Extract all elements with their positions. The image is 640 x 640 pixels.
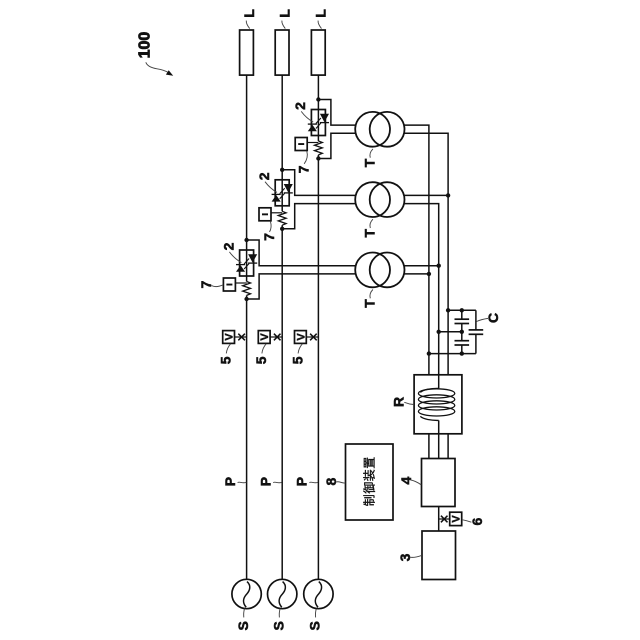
node: top junction (phase 2) [280, 168, 284, 172]
thyristor (up) of pair 2 (phase 1) [236, 265, 245, 272]
capacitor C1 [461, 310, 463, 319]
svg-text:V: V [259, 333, 271, 341]
wire: T1 secondary top lead to bus A [404, 125, 429, 375]
leader for 2 (phase 1) [229, 252, 241, 263]
svg-text:5: 5 [253, 356, 269, 364]
wire: bus A reactor to converter [428, 434, 430, 459]
svg-text:L: L [277, 9, 293, 18]
voltage sensor V box 5 (phase 2) [270, 336, 282, 338]
svg-text:P: P [294, 477, 310, 486]
svg-text:2: 2 [220, 242, 236, 250]
AC source S (phase 1) [232, 579, 261, 608]
gate of up thyristor (phase 3) [316, 118, 321, 124]
wire: coil feed top [438, 375, 440, 389]
leader for 5 (phase 2) [262, 344, 266, 354]
transformer T2 secondary winding circle [370, 182, 405, 217]
leader for 8 [336, 482, 345, 483]
thyristor (down) of pair 2 (phase 1) [248, 254, 257, 262]
node: bottom junction (phase 2) [280, 227, 284, 231]
node: bus A to cap rail [427, 351, 431, 355]
resistor (bypass damping) on line (phase 3) [315, 141, 323, 155]
leader for 7 (phase 1) [212, 285, 224, 287]
node: bottom junction (phase 1) [244, 297, 248, 301]
wire: load to top junction (phase 3) [317, 75, 319, 99]
svg-text:S: S [271, 621, 287, 630]
leader for R [404, 402, 414, 404]
leader for 2 (phase 3) [301, 111, 313, 122]
wire: T3 secondary bottom lead joins bus A [404, 273, 429, 275]
node: top junction (phase 3) [316, 97, 320, 101]
leader for L (phase 3) [318, 21, 321, 29]
capacitor C2 [461, 332, 463, 341]
wire: bypass bottom segment from transformer (phase 3) [318, 133, 355, 158]
svg-text:T: T [361, 158, 377, 167]
wire: sensor I stub to line (phase 1) [235, 282, 246, 284]
node: bus C to cap rail [437, 330, 441, 334]
node: bottom junction (phase 3) [316, 156, 320, 160]
gate of down thyristor (phase 3) [316, 123, 321, 129]
leader for 4 [410, 480, 421, 485]
svg-text:2: 2 [256, 172, 272, 180]
leader for 2 (phase 2) [265, 182, 277, 193]
leader for 7 (phase 2) [270, 221, 272, 232]
wire: line from bottom junction down to source (phase 3) [317, 159, 319, 580]
node: cap C2 bottom [460, 351, 464, 355]
voltage sensor V box 5 (phase 3) [306, 336, 318, 338]
thyristor (down) of pair 2 (phase 3) [320, 114, 329, 122]
svg-text:7: 7 [296, 165, 312, 173]
gate of up thyristor (phase 2) [280, 188, 285, 194]
converter box 4 [422, 459, 456, 507]
gate of down thyristor (phase 2) [280, 193, 285, 199]
svg-text:C: C [485, 313, 501, 323]
wire: main line through switch & resistor (phase 2) [281, 170, 283, 212]
thyristor pair box 2 (phase 3) [311, 110, 325, 136]
leader for T (T2) [370, 219, 373, 228]
svg-text:L: L [241, 9, 257, 18]
leader for 7 (phase 3) [304, 151, 307, 164]
resistor (bypass damping) on line (phase 1) [243, 282, 251, 296]
wire: main line through switch & resistor (phase 3) [317, 100, 319, 142]
thyristor (down) of pair 2 (phase 2) [284, 184, 293, 192]
wire: line from bottom junction down to source (phase 2) [281, 229, 283, 580]
svg-text:2: 2 [292, 102, 308, 110]
gate of up thyristor (phase 1) [244, 259, 249, 265]
wire: line from bottom junction down to source (phase 1) [246, 299, 248, 579]
wire: load to top junction (phase 1) [246, 75, 248, 240]
wire: capacitor bank top rail [448, 309, 476, 311]
resistor (bypass damping) on line (phase 2) [278, 211, 286, 225]
AC source S (phase 3) [304, 579, 333, 608]
wire: bypass top segment to transformer (phase 1) [247, 240, 356, 266]
svg-text:7: 7 [261, 233, 277, 241]
node: T3 bottom on bus A [427, 272, 431, 276]
control device box 8 [346, 444, 394, 520]
leader for 6 [462, 520, 471, 523]
wire: load to top junction (phase 2) [281, 75, 283, 170]
svg-text:T: T [361, 228, 377, 237]
wire: bus C reactor to converter [438, 434, 440, 459]
wire: resistor to bottom junction (phase 1) [246, 295, 248, 299]
wire: T1 secondary bottom lead to bus B [404, 133, 448, 374]
transformer T2 primary winding circle [355, 182, 390, 217]
thyristor pair box 2 (phase 1) [240, 250, 254, 276]
node: cap C1/C2 mid [460, 330, 464, 334]
svg-text:100: 100 [137, 32, 154, 59]
svg-text:T: T [361, 299, 377, 308]
leader for S (phase 1) [243, 609, 246, 618]
transformer T1 primary winding circle [355, 112, 390, 147]
node: T3 top on bus C [437, 264, 441, 268]
load L (phase 3) rectangle [311, 30, 325, 75]
svg-text:制御装置: 制御装置 [362, 456, 377, 506]
wire: capacitor bank middle rail [439, 331, 462, 333]
transformer T1 secondary winding circle [370, 112, 405, 147]
leader for P (phase 3) [309, 481, 318, 484]
svg-text:P: P [258, 477, 274, 486]
svg-text:5: 5 [218, 356, 234, 364]
node: bus B to cap rail [446, 308, 450, 312]
wire: bus B reactor to converter [447, 434, 449, 459]
transformer T3 primary winding circle [355, 253, 390, 288]
node: T2 top on bus B [446, 193, 450, 197]
transformer T3 secondary winding circle [370, 253, 405, 288]
wire: main line through switch & resistor (phase 1) [246, 240, 248, 282]
svg-text:R: R [391, 397, 407, 407]
wire: capacitor bank bottom rail [429, 353, 476, 355]
svg-text:L: L [313, 9, 329, 18]
leader for L (phase 2) [282, 21, 285, 29]
wire: bypass top segment to transformer (phase 2) [282, 170, 355, 196]
leader for C [477, 318, 489, 321]
wire: bypass bottom segment from transformer (phase 1) [247, 274, 356, 299]
leader for 3 [410, 555, 422, 557]
wire: resistor to bottom junction (phase 3) [317, 155, 319, 159]
wire: bypass top segment to transformer (phase 3) [318, 100, 355, 126]
leader for T (T1) [370, 149, 373, 158]
svg-text:6: 6 [469, 517, 485, 525]
current sensor I box (phase 2) [259, 208, 271, 221]
node: top junction (phase 1) [244, 238, 248, 242]
leader for P (phase 2) [273, 481, 282, 484]
thyristor (up) of pair 2 (phase 3) [308, 125, 317, 132]
svg-text:V: V [224, 333, 236, 341]
leader for 5 (phase 1) [226, 344, 230, 354]
leader for 5 (phase 3) [298, 344, 302, 354]
leader for L (phase 1) [246, 21, 249, 29]
wire: T2 secondary bottom lead to bus C [404, 204, 438, 375]
energy storage box 3 [422, 531, 456, 580]
wire: sensor I stub to line (phase 2) [271, 212, 282, 214]
node: cap C1 top [460, 308, 464, 312]
wire: coil feed bottom [438, 420, 440, 433]
capacitor C3 (outer leg) [475, 310, 477, 330]
svg-text:V: V [295, 333, 307, 341]
voltage sensor V box 5 (phase 1) [235, 336, 247, 338]
wire: converter to battery [438, 507, 440, 532]
reactor coil turns [418, 389, 454, 398]
wire: sensor I stub to line (phase 3) [307, 142, 318, 144]
load L (phase 2) rectangle [275, 30, 289, 75]
leader for S (phase 3) [314, 609, 317, 618]
wire: T2 secondary top lead joins bus B [404, 194, 448, 196]
svg-text:5: 5 [289, 356, 305, 364]
AC source S (phase 2) [268, 579, 297, 608]
reactor R box [414, 375, 462, 434]
wire: resistor to bottom junction (phase 2) [281, 225, 283, 229]
current sensor I box (phase 1) [223, 278, 235, 291]
gate of down thyristor (phase 1) [244, 264, 249, 270]
leader for T (T3) [370, 290, 373, 299]
current sensor I box (phase 3) [295, 138, 307, 151]
thyristor (up) of pair 2 (phase 2) [272, 195, 281, 202]
leader for S (phase 2) [278, 609, 281, 618]
leader for P (phase 1) [238, 481, 247, 484]
svg-text:S: S [307, 621, 323, 630]
svg-text:P: P [222, 477, 238, 486]
wire: bypass bottom segment from transformer (phase 2) [282, 204, 355, 229]
voltage sensor V box (6) [439, 518, 450, 520]
svg-text:V: V [451, 515, 463, 523]
svg-text:7: 7 [198, 280, 214, 288]
load L (phase 1) rectangle [240, 30, 254, 75]
leader arrow for 100 [146, 62, 169, 72]
svg-text:S: S [235, 621, 251, 630]
thyristor pair box 2 (phase 2) [275, 180, 289, 206]
wire: T3 secondary top lead joins bus C [404, 265, 438, 267]
